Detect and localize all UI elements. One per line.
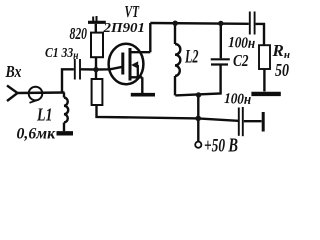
svg-text:0,6мк: 0,6мк bbox=[17, 125, 56, 143]
svg-text:Вх: Вх bbox=[5, 62, 22, 81]
svg-text:L1: L1 bbox=[36, 105, 52, 125]
svg-text:+50 В: +50 В bbox=[204, 135, 238, 157]
svg-text:50: 50 bbox=[275, 60, 289, 80]
svg-text:100н: 100н bbox=[228, 34, 256, 52]
svg-text:L2: L2 bbox=[184, 48, 198, 68]
svg-text:100н: 100н bbox=[224, 91, 252, 108]
svg-text:VT: VT bbox=[125, 2, 140, 21]
svg-text:820: 820 bbox=[70, 24, 88, 43]
svg-text:2П901: 2П901 bbox=[102, 21, 145, 36]
svg-text:С2: С2 bbox=[233, 51, 249, 70]
